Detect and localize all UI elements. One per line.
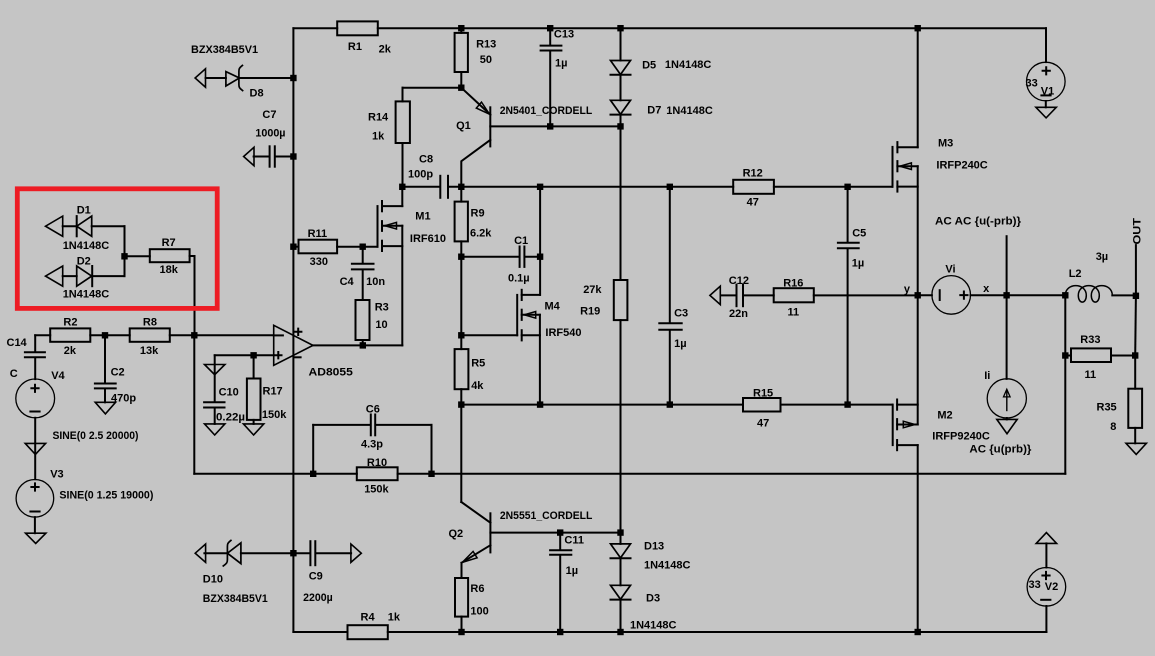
junction C7-rail xyxy=(290,153,296,159)
svg-text:10: 10 xyxy=(375,319,387,331)
junction D8-rail xyxy=(290,75,296,81)
wire R14 top lead xyxy=(402,88,404,102)
wire node to R7 xyxy=(125,255,150,257)
svg-text:C: C xyxy=(10,368,18,380)
svg-text:Vi: Vi xyxy=(945,264,955,276)
svg-text:R33: R33 xyxy=(1080,334,1100,346)
wire D1 cathode lead xyxy=(63,225,77,227)
junction C3 bottom xyxy=(667,401,673,407)
current source Ii xyxy=(987,379,1026,418)
ground below V1 xyxy=(1036,107,1056,118)
wire feedback vertical from op-amp input xyxy=(193,335,195,474)
svg-text:BZX384B5V1: BZX384B5V1 xyxy=(191,44,258,56)
wire C4 top lead xyxy=(362,247,364,264)
voltage source V1 xyxy=(1027,62,1066,101)
wire R5 bottom lead xyxy=(460,389,462,404)
diode D3 1N4148C xyxy=(611,585,631,599)
wire R9 bottom lead xyxy=(460,241,462,256)
wire R5 top lead xyxy=(460,335,462,349)
svg-text:R9: R9 xyxy=(471,208,485,220)
svg-text:C5: C5 xyxy=(852,228,866,240)
wire rail to C9 xyxy=(293,552,310,554)
capacitor C8 xyxy=(439,176,441,198)
svg-text:100: 100 xyxy=(470,606,488,618)
op-amp positive supply mark xyxy=(295,329,301,335)
wire C6 left leg xyxy=(312,425,314,474)
MOSFET M3 IRFP240C xyxy=(893,28,918,295)
svg-text:10n: 10n xyxy=(366,276,385,288)
junction R9-C1 xyxy=(458,254,464,260)
net flag arrow left of D8 xyxy=(195,69,205,87)
svg-text:150k: 150k xyxy=(262,409,287,421)
svg-text:AC AC {u(-prb)}: AC AC {u(-prb)} xyxy=(935,216,1022,228)
capacitor C13 xyxy=(541,45,562,47)
transistor Q2 2N5551 xyxy=(461,502,560,578)
diode D13 1N4148C xyxy=(611,544,631,558)
wire top rail to D5 xyxy=(620,28,622,60)
wire D3 to bottom rail xyxy=(620,600,622,632)
wire R33 right lead xyxy=(1111,355,1135,357)
junction M2 drain-bottom rail xyxy=(915,629,921,635)
capacitor C3 xyxy=(659,322,681,324)
wire R10 right lead xyxy=(398,473,432,475)
svg-text:Q1: Q1 xyxy=(456,120,471,132)
svg-text:R11: R11 xyxy=(308,228,328,240)
svg-text:D5: D5 xyxy=(642,60,656,72)
svg-text:1N4148C: 1N4148C xyxy=(665,59,712,71)
svg-text:C8: C8 xyxy=(419,154,433,166)
wire C14 top lead xyxy=(34,335,36,352)
resistor R5 xyxy=(455,349,469,389)
wire R7 right lead xyxy=(190,255,195,257)
diode D5 1N4148C xyxy=(611,61,631,75)
svg-text:13k: 13k xyxy=(140,345,159,357)
junction C13 bottom xyxy=(547,123,553,129)
resistor R10 xyxy=(357,467,398,480)
wire down to M4 drain xyxy=(539,257,541,295)
svg-text:C3: C3 xyxy=(674,308,688,320)
wire D7 node down to R19 xyxy=(620,126,622,280)
svg-text:D3: D3 xyxy=(646,593,660,605)
wire Vi to x node xyxy=(971,294,1007,296)
wire R14 bottom lead xyxy=(402,143,404,187)
wire C3 bottom lead xyxy=(669,330,671,404)
wire V2 top lead xyxy=(1045,543,1047,567)
svg-text:1N4148C: 1N4148C xyxy=(630,620,677,632)
junction C6 right xyxy=(428,471,434,477)
wire R3 bottom lead xyxy=(362,340,364,345)
wire down to Q2 collector xyxy=(460,405,462,502)
wire R15 to M2 gate xyxy=(781,404,893,406)
ground below C2 xyxy=(95,402,115,414)
junction C3 top xyxy=(667,184,673,190)
svg-text:100p: 100p xyxy=(408,169,433,181)
svg-text:8: 8 xyxy=(1110,421,1116,433)
voltage source Vi xyxy=(932,276,971,315)
junction M3 source-Vi xyxy=(915,292,921,298)
junction C13-top rail xyxy=(547,25,553,31)
svg-text:D8: D8 xyxy=(250,88,264,100)
svg-text:1N4148C: 1N4148C xyxy=(666,105,713,117)
wire C2 top lead xyxy=(104,335,106,383)
svg-text:150k: 150k xyxy=(364,484,389,496)
svg-text:R19: R19 xyxy=(580,306,600,318)
wire C7 right lead xyxy=(275,156,293,158)
junction D3-bottom rail xyxy=(617,629,623,635)
svg-text:C7: C7 xyxy=(262,109,276,121)
svg-text:11: 11 xyxy=(788,307,800,319)
wire C6 left lead xyxy=(313,424,370,426)
svg-text:C11: C11 xyxy=(564,535,584,547)
svg-text:BZX384B5V1: BZX384B5V1 xyxy=(203,593,268,605)
svg-text:50: 50 xyxy=(480,54,492,66)
junction R9 top xyxy=(458,184,464,190)
junction D1-D2-R7 node xyxy=(121,253,127,259)
capacitor C14 xyxy=(25,351,45,353)
junction C11-bottom rail xyxy=(557,629,563,635)
wire R6 bottom lead xyxy=(461,617,463,632)
ground flag above V2 (pointing up) xyxy=(1036,533,1056,544)
wire feedback bottom left segment xyxy=(194,473,313,475)
voltage source V4 xyxy=(16,379,55,418)
wire AC probe stub xyxy=(1006,236,1008,295)
resistor R15 xyxy=(743,398,781,412)
wire C1 to M4 drain branch xyxy=(525,256,540,258)
resistor R11 xyxy=(299,240,338,254)
wire D10 anode to rail xyxy=(241,552,294,554)
wire R14 top to Q1 emitter node xyxy=(403,87,462,89)
svg-text:D2: D2 xyxy=(77,256,91,268)
svg-text:1N4148C: 1N4148C xyxy=(63,240,110,252)
junction L2 left xyxy=(1062,292,1068,298)
wire y node to Vi xyxy=(918,294,932,296)
transistor Q1 2N5401 xyxy=(461,88,550,187)
Vi minus bar xyxy=(939,290,941,300)
capacitor C5 xyxy=(838,242,859,244)
svg-text:330: 330 xyxy=(310,256,328,268)
resistor R9 xyxy=(455,202,468,242)
wire V1 to ground xyxy=(1045,101,1047,107)
wire R9 node down to R5 node xyxy=(460,257,462,336)
svg-text:C2: C2 xyxy=(111,367,125,379)
junction R3 bottom xyxy=(360,342,366,348)
resistor R13 xyxy=(455,33,468,72)
junction M3 drain-top rail xyxy=(915,25,921,31)
svg-text:R15: R15 xyxy=(753,388,773,400)
resistor R8 xyxy=(130,328,170,341)
resistor R17 xyxy=(247,379,261,420)
capacitor C2 xyxy=(95,383,116,385)
svg-text:R14: R14 xyxy=(368,112,389,124)
svg-text:R16: R16 xyxy=(783,278,803,290)
junction R13-top rail xyxy=(458,25,464,31)
wire R35 bottom lead xyxy=(1134,428,1136,443)
svg-text:SINE(0 1.25 19000): SINE(0 1.25 19000) xyxy=(59,490,153,502)
wire Q1 base to diode string xyxy=(550,125,620,127)
diode D1 1N4148C (pointing left) xyxy=(76,216,78,236)
wire Ii bottom lead xyxy=(1006,418,1008,419)
svg-text:2N5401_CORDELL: 2N5401_CORDELL xyxy=(500,105,593,117)
junction D5-top rail xyxy=(617,25,623,31)
wire D7 to Q1 base node xyxy=(620,114,622,126)
wire C7 left lead xyxy=(254,156,270,158)
svg-text:4k: 4k xyxy=(471,380,484,392)
wire L2 to OUT node xyxy=(1112,294,1136,296)
wire top rail left segment xyxy=(293,27,337,29)
capacitor C1 xyxy=(519,247,521,267)
wire R7 down to op-amp input node xyxy=(194,256,196,335)
svg-text:11: 11 xyxy=(1085,369,1097,381)
ground below R35 xyxy=(1126,443,1146,454)
ground below R17 xyxy=(243,424,263,435)
diode D2 1N4148C (pointing right) xyxy=(77,266,92,286)
junction R17 top xyxy=(250,352,256,358)
svg-text:M1: M1 xyxy=(415,211,430,223)
wire R17 top lead xyxy=(253,355,255,378)
wire gate line down to C1 node xyxy=(539,187,541,257)
svg-text:0.1µ: 0.1µ xyxy=(508,273,530,285)
zener diode D8 BZX384B5V1 xyxy=(226,72,240,86)
svg-text:47: 47 xyxy=(747,197,759,209)
wire R33 left lead xyxy=(1065,355,1071,357)
svg-text:y: y xyxy=(904,284,911,296)
svg-text:470p: 470p xyxy=(111,393,136,405)
resistor R12 xyxy=(733,180,774,194)
wire R8 to op-amp inverting input xyxy=(170,334,274,336)
svg-text:1µ: 1µ xyxy=(852,258,864,270)
wire R16 to y node xyxy=(814,294,918,296)
capacitor C11 xyxy=(550,549,571,551)
svg-text:6.2k: 6.2k xyxy=(470,228,492,240)
wire op-amp noninverting input xyxy=(215,354,274,356)
wire C13 top lead xyxy=(549,28,551,45)
wire D13 to D3 xyxy=(620,558,622,585)
svg-text:3µ: 3µ xyxy=(1096,251,1108,263)
op-amp U1 AD8055 xyxy=(274,325,313,365)
svg-text:C9: C9 xyxy=(309,571,323,583)
wire op-amp output to M1 source xyxy=(313,344,402,346)
wire R13 bottom lead xyxy=(460,72,462,88)
wire R9 top lead xyxy=(460,187,462,202)
junction R33 right-R35 xyxy=(1132,352,1138,358)
svg-text:M3: M3 xyxy=(938,138,953,150)
wire Q2 base to diode string xyxy=(560,532,620,534)
svg-text:AD8055: AD8055 xyxy=(309,367,353,379)
wire R17 bottom lead xyxy=(253,420,255,424)
svg-text:1k: 1k xyxy=(388,612,401,624)
svg-text:IRF610: IRF610 xyxy=(410,233,446,245)
ground flag above C10 xyxy=(205,365,225,375)
resistor R1 xyxy=(337,21,378,35)
wire C10 bottom lead xyxy=(214,408,216,424)
capacitor C6 xyxy=(370,415,372,436)
svg-text:1µ: 1µ xyxy=(674,338,686,350)
svg-text:4.3p: 4.3p xyxy=(361,439,383,451)
svg-text:V2: V2 xyxy=(1045,581,1058,593)
svg-text:R13: R13 xyxy=(476,39,496,51)
svg-text:R2: R2 xyxy=(63,317,77,329)
svg-text:1k: 1k xyxy=(372,131,385,143)
ground symbol between V4 and V3 xyxy=(25,443,45,454)
svg-text:2k: 2k xyxy=(379,44,392,56)
wire feedback bottom right segment xyxy=(432,473,1066,475)
junction D10-C9-rail xyxy=(290,550,296,556)
resistor R35 xyxy=(1128,389,1142,428)
wire x node down to Ii xyxy=(1006,295,1008,379)
wire V4 to V3 xyxy=(34,418,36,479)
wire x node to L2 xyxy=(1007,294,1066,296)
wire C11 top lead xyxy=(559,533,561,550)
svg-text:D13: D13 xyxy=(644,541,664,553)
junction OUT node xyxy=(1133,293,1139,299)
wire to D13 xyxy=(620,533,622,544)
capacitor C9 xyxy=(309,541,311,565)
svg-text:D1: D1 xyxy=(77,205,91,217)
svg-text:2200µ: 2200µ xyxy=(303,592,333,604)
svg-text:18k: 18k xyxy=(160,264,179,276)
wire D8 cathode to rail xyxy=(240,77,293,79)
junction C4 top xyxy=(360,244,366,250)
svg-text:M4: M4 xyxy=(545,301,561,313)
net flag arrow left of C12 xyxy=(710,286,720,304)
capacitor C12 xyxy=(736,285,738,307)
svg-text:IRFP9240C: IRFP9240C xyxy=(932,431,990,443)
net flag arrow left of D2 xyxy=(46,266,63,286)
wire C14 to V4 xyxy=(34,358,36,380)
wire C5 top lead xyxy=(847,187,849,243)
junction R13-R14-Q1 xyxy=(458,85,464,91)
ground below V3 xyxy=(26,533,46,543)
wire V3 bottom lead xyxy=(34,517,36,533)
svg-text:IRF540: IRF540 xyxy=(545,327,581,339)
junction C1-M4 drain xyxy=(537,254,543,260)
svg-text:0.22µ: 0.22µ xyxy=(216,412,245,424)
wire top rail right segment xyxy=(378,27,1046,29)
svg-text:R1: R1 xyxy=(348,41,362,53)
wire D2 anode lead xyxy=(63,275,77,277)
wire C11 bottom lead xyxy=(559,555,561,632)
wire R11 to M1 gate xyxy=(337,246,377,248)
Vi plus mark xyxy=(960,292,967,299)
MOSFET M2 IRFP9240C xyxy=(893,295,918,632)
svg-text:1µ: 1µ xyxy=(555,58,567,70)
junction M1 drain / R14 xyxy=(399,184,405,190)
wire D2 branch up xyxy=(124,256,126,276)
junction D13 top xyxy=(617,529,623,535)
wire V1 top lead xyxy=(1045,28,1047,62)
junction C11 top xyxy=(557,529,563,535)
svg-text:V3: V3 xyxy=(50,469,63,481)
net flag arrow left of C7 xyxy=(244,147,254,165)
resistor R14 xyxy=(396,101,410,143)
svg-text:22n: 22n xyxy=(729,308,748,320)
junction R33 left xyxy=(1062,352,1068,358)
capacitor C4 xyxy=(352,263,374,265)
resistor R19 xyxy=(614,280,628,320)
net flag arrow right of C9 xyxy=(351,544,361,562)
wire bottom rail left segment xyxy=(293,631,347,633)
wire C5 bottom lead xyxy=(847,249,849,405)
capacitor C10 xyxy=(204,401,224,403)
junction D7 bottom xyxy=(617,123,623,129)
svg-text:OUT: OUT xyxy=(1131,218,1143,245)
zener diode D10 BZX384B5V1 (pointing left) xyxy=(223,540,231,566)
wire C12 to R16 xyxy=(743,294,773,296)
svg-text:R17: R17 xyxy=(263,386,283,398)
wire R13 top lead xyxy=(460,28,462,33)
svg-text:27k: 27k xyxy=(583,284,602,296)
voltage source V2 xyxy=(1027,568,1066,607)
net flag arrow left of D1 xyxy=(46,216,63,236)
wire bottom rail right segment xyxy=(388,631,1047,633)
junction x node xyxy=(1003,292,1009,298)
svg-text:R10: R10 xyxy=(367,457,387,469)
resistor R33 xyxy=(1071,348,1111,362)
wire R12 to M3 gate xyxy=(774,186,892,188)
svg-text:1N4148C: 1N4148C xyxy=(63,289,110,301)
svg-text:1µ: 1µ xyxy=(566,565,578,577)
junction R5 bottom xyxy=(458,401,464,407)
MOSFET M4 IRF540 xyxy=(517,290,540,405)
voltage source V3 xyxy=(16,480,54,518)
svg-text:AC {u(prb)}: AC {u(prb)} xyxy=(969,444,1032,456)
resistor R2 xyxy=(50,328,90,341)
svg-text:D7: D7 xyxy=(647,105,661,117)
junction R6-bottom rail xyxy=(458,629,464,635)
junction R2-R8-C2 xyxy=(102,332,108,338)
wire to C1 xyxy=(461,256,519,258)
resistor R3 xyxy=(356,300,370,340)
resistor R7 xyxy=(150,249,190,262)
svg-text:C6: C6 xyxy=(366,404,380,416)
resistor R6 xyxy=(455,578,468,617)
svg-text:2N5551_CORDELL: 2N5551_CORDELL xyxy=(500,510,593,522)
junction C6 left xyxy=(310,471,316,477)
junction M4 gate-R5 xyxy=(458,332,464,338)
junction C1 branch top xyxy=(537,184,543,190)
svg-text:Q2: Q2 xyxy=(449,528,464,540)
svg-text:R6: R6 xyxy=(470,583,484,595)
svg-text:1000µ: 1000µ xyxy=(255,127,285,139)
wire C3 top lead xyxy=(669,187,671,323)
svg-text:R5: R5 xyxy=(471,358,485,370)
wire output node down to feedback xyxy=(1064,295,1066,474)
svg-text:47: 47 xyxy=(757,418,769,430)
wire D5 to D7 xyxy=(620,75,622,101)
junction R8-R7-feedback xyxy=(191,332,197,338)
junction C5 top xyxy=(844,184,850,190)
svg-text:C13: C13 xyxy=(554,29,574,41)
wire D10 lead xyxy=(204,552,227,554)
wire OUT stub xyxy=(1135,245,1137,296)
svg-text:33: 33 xyxy=(1026,78,1038,90)
wire to C10 xyxy=(214,355,216,402)
ground below C10 xyxy=(205,424,225,435)
wire D1 branch down xyxy=(124,226,126,256)
resistor R16 xyxy=(774,288,814,302)
capacitor C7 xyxy=(269,146,271,166)
wire C6 right lead xyxy=(376,424,432,426)
wire C9 right lead xyxy=(316,552,352,554)
svg-text:R3: R3 xyxy=(375,302,389,314)
wire C4 to R3 xyxy=(362,270,364,300)
svg-text:D10: D10 xyxy=(203,574,223,586)
svg-text:IRFP240C: IRFP240C xyxy=(936,160,987,172)
svg-text:L2: L2 xyxy=(1069,268,1082,280)
wire R2 to R8 xyxy=(90,334,129,336)
svg-text:M2: M2 xyxy=(937,410,952,422)
junction C5 bottom xyxy=(844,401,850,407)
